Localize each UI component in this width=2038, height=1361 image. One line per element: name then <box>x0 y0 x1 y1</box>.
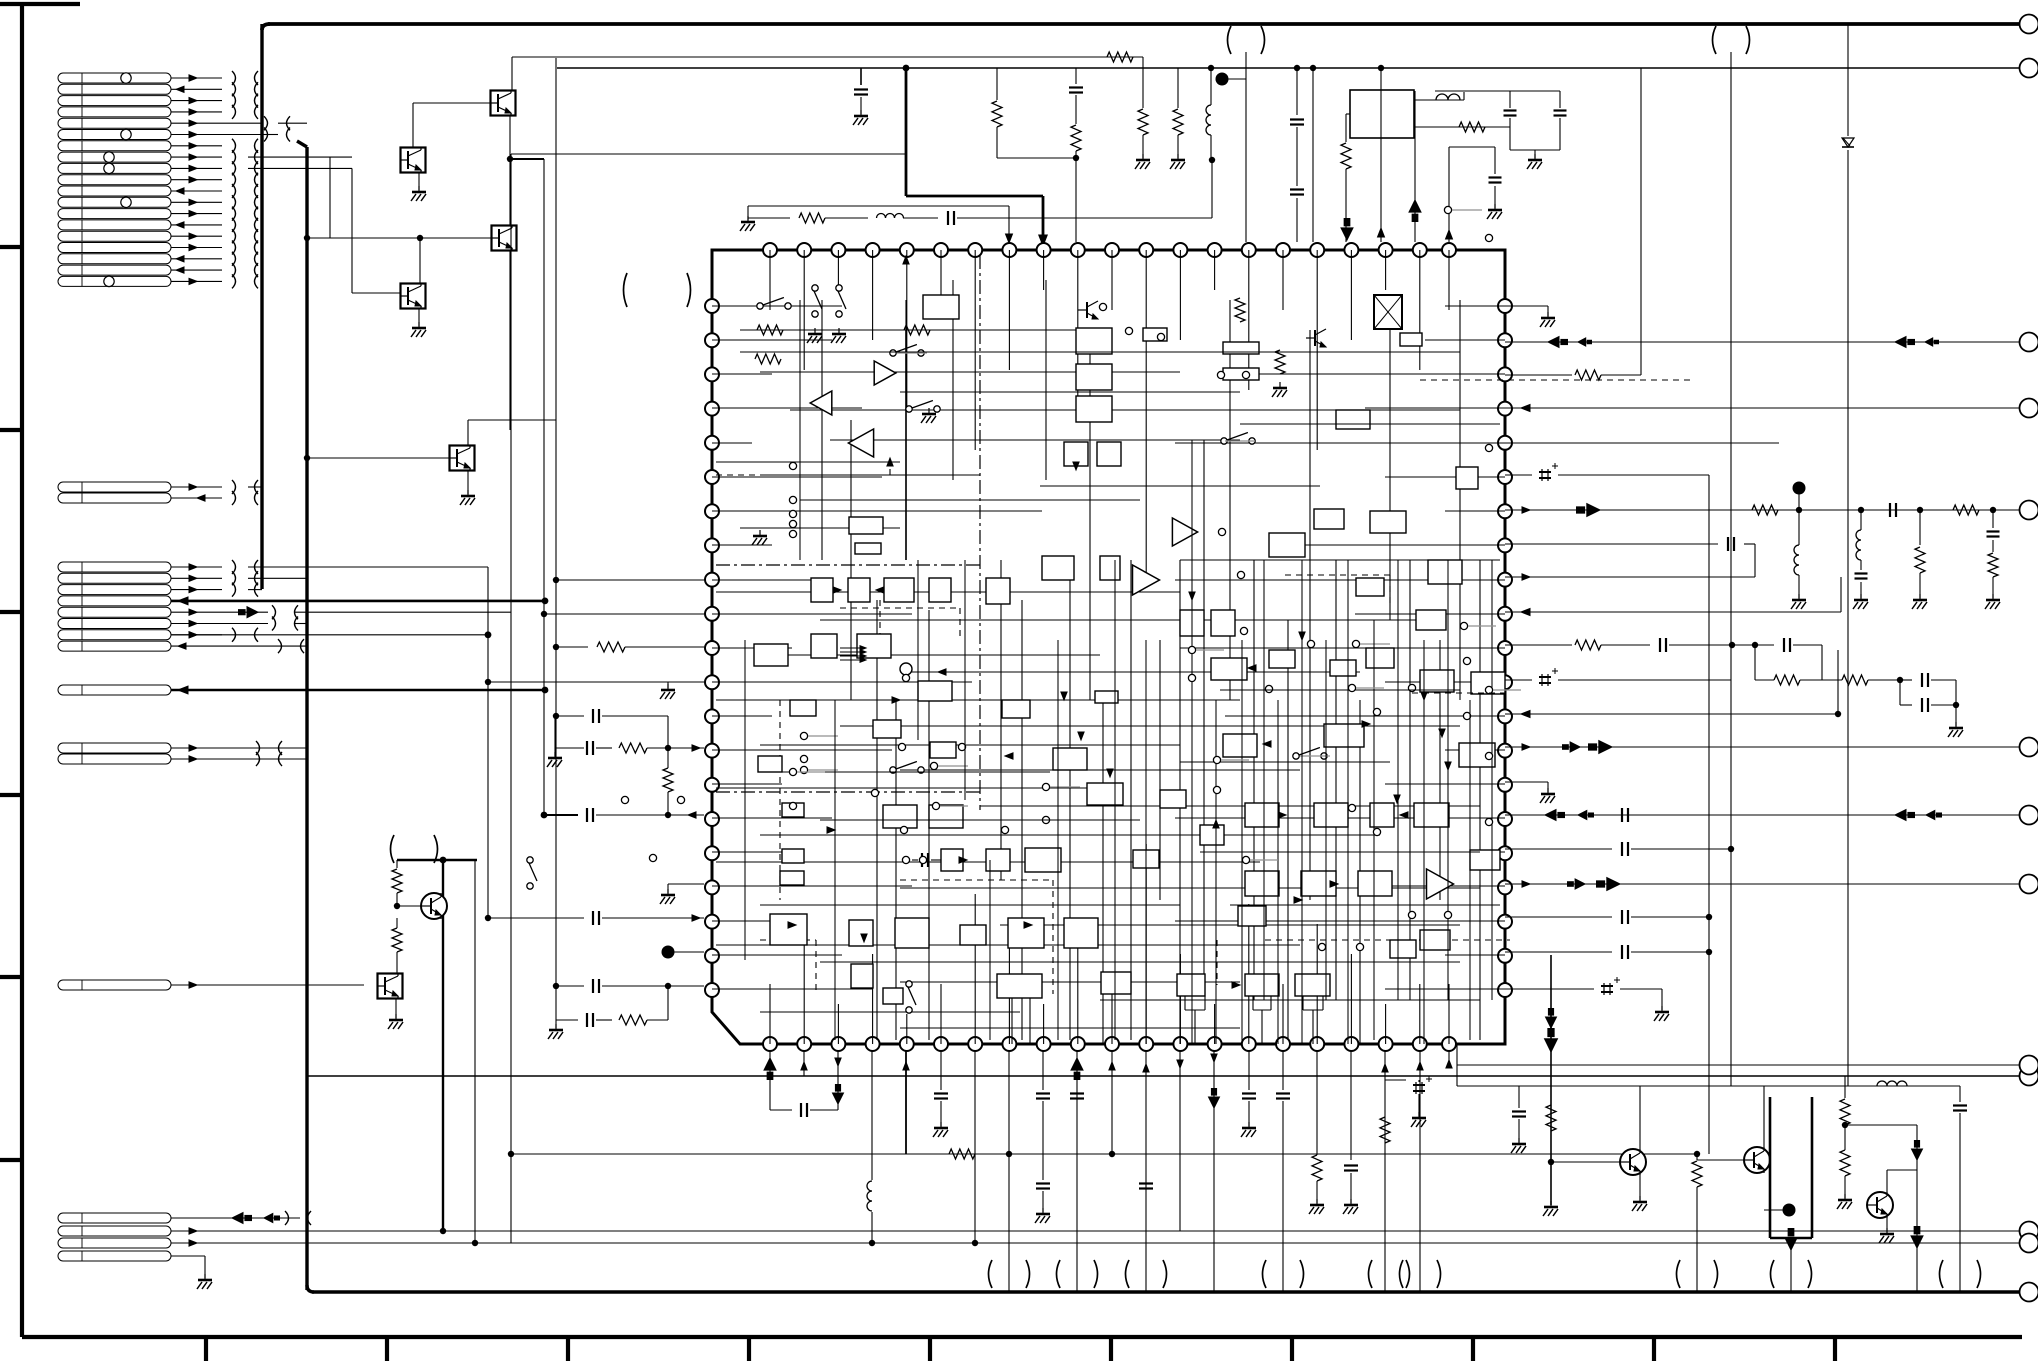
wire Q1 top to net V57 <box>511 57 513 90</box>
terminal right 1076 <box>2020 1067 2038 1086</box>
IC interior switches <box>757 303 763 309</box>
right row 475 cap-polarized <box>1505 474 1532 476</box>
block FB5 <box>1076 364 1112 390</box>
IC interior extra arrows <box>1189 592 1195 600</box>
IC interior gray link stubs <box>808 735 838 737</box>
block XB5 <box>1356 578 1384 596</box>
capacitor C40 column <box>1518 1086 1520 1108</box>
below IC rail y1154 <box>511 1153 1697 1155</box>
right pin row1 elbow ground <box>1505 305 1548 307</box>
wire Q8 collector <box>1639 1086 1641 1150</box>
capacitor C2 <box>1075 68 1077 84</box>
pin 1249 cap ground <box>1248 1051 1250 1090</box>
long vertical net LV3 <box>487 567 489 918</box>
block FB9 <box>1143 328 1167 341</box>
block FB3 <box>855 543 881 554</box>
block FB8 <box>1097 442 1121 466</box>
long vertical net LV2 <box>474 860 476 1243</box>
wire node down to Q4 top <box>419 238 421 283</box>
connector CN1 pill stack <box>58 73 171 83</box>
long vertical net LV4b upper <box>510 154 512 611</box>
right row 510 long wire to terminal <box>1505 509 2020 511</box>
wire CN7 row2 long video out <box>171 1230 2020 1232</box>
connector CN5 pill stack <box>58 743 171 753</box>
wire into left pin row 12 with ground stub <box>488 681 704 683</box>
block FB37 <box>941 849 963 871</box>
IC interior transistor T2 <box>1314 330 1316 346</box>
right row 544 capacitor <box>1505 543 1718 545</box>
long vertical net LV4 <box>510 611 512 1243</box>
IC interior amplifier A2 <box>810 391 832 415</box>
wire V57 elbow to V68 <box>1142 57 1144 68</box>
thick rail above Q6 <box>397 859 477 861</box>
block XB3 <box>1269 650 1295 668</box>
ground below Q5 <box>467 471 469 494</box>
wire R40 to Q8 base <box>1551 1161 1619 1163</box>
terminal right 747 <box>2020 738 2038 757</box>
LC to ground 1 <box>1858 507 1864 513</box>
top thick bus Vcc <box>262 24 270 30</box>
transistor box Q5 <box>450 446 475 471</box>
connector CN5 wires <box>171 747 307 749</box>
pin 770 bold up arrow <box>769 1051 771 1110</box>
block FB17 <box>1370 511 1406 533</box>
transistor Q9 <box>1744 1147 1770 1173</box>
block FB4 <box>1076 328 1112 354</box>
block XB8 <box>1133 850 1159 868</box>
terminal right 1246 <box>2020 1234 2038 1253</box>
block FB14 <box>1400 333 1422 346</box>
connector CN3 wires <box>171 566 222 568</box>
capacitor network rows 13-14 <box>586 741 588 755</box>
IC interior comparator block with cross <box>1374 295 1402 329</box>
wire into left pin row 13 with capacitor <box>556 715 584 717</box>
ground R40 <box>1550 1201 1552 1207</box>
resistor R41 column <box>1696 1154 1698 1160</box>
pin 1351 cap ground ladder <box>1350 1051 1352 1160</box>
block FB28 <box>811 634 837 658</box>
block FB65 <box>1366 648 1394 668</box>
block FB49 <box>883 988 903 1004</box>
long vertical net LV1 <box>442 860 444 1231</box>
block XB11 <box>790 700 816 716</box>
cap-polarized near pin 1385 <box>1385 1079 1406 1081</box>
block FB66 <box>1459 743 1495 767</box>
pin 1043 double cap ground <box>1042 1051 1044 1090</box>
capacitor C20 on row 510 <box>1889 503 1891 517</box>
block FB10 <box>1223 342 1259 354</box>
page border bottom ticks <box>204 1337 208 1361</box>
connector parens 1009 <box>989 1260 993 1288</box>
resistor R6 with bold arrow into pin 18 <box>1345 138 1347 142</box>
block XB18 <box>960 925 986 945</box>
block FB60 <box>1370 803 1394 827</box>
terminal right 1232 <box>2020 1222 2038 1241</box>
block FB29 <box>857 634 891 658</box>
block XB7 <box>1420 930 1450 950</box>
IC U1 bottom pins <box>763 1037 777 1051</box>
capacitor C6 column at pin 20 <box>1448 147 1450 242</box>
right row 917 capacitor <box>1505 916 1612 918</box>
block XB15 <box>873 720 901 738</box>
wire CN3 row6 <box>294 623 307 625</box>
block FB50 <box>997 974 1042 998</box>
IC U1 right pins <box>1498 299 1512 313</box>
bus wire W1 thick vertical <box>260 24 263 589</box>
connector parens 1077 <box>1057 1260 1061 1288</box>
IC U1 left pins <box>705 299 719 313</box>
net LV4 top horizontal <box>511 153 906 155</box>
connector parens 1385 <box>1369 1260 1373 1288</box>
pin 1385 long drop resistor <box>1384 1051 1386 1292</box>
block FB57 <box>1324 724 1364 747</box>
junction LV2 bottom <box>472 1240 478 1246</box>
transistor box Q4 <box>401 284 426 309</box>
block FB15 <box>1269 533 1305 557</box>
block XB14 <box>1470 850 1500 870</box>
terminal right 408 <box>2020 399 2038 418</box>
block FB25 <box>1042 556 1074 580</box>
inductor L2 top <box>1845 1085 1870 1087</box>
right row 989 cap-polarized <box>1505 988 1594 990</box>
block FB7 <box>1064 442 1088 466</box>
block FB33 <box>1087 783 1123 805</box>
wire CN4 thick line <box>171 689 545 692</box>
diode D1 column <box>1847 24 1849 136</box>
IC interior small arrows <box>903 256 909 264</box>
resistor R5 column <box>1177 68 1179 108</box>
pin 804 stub arrow <box>803 1051 805 1076</box>
pin 872 inductor drop <box>871 1051 873 1180</box>
terminal right 815 <box>2020 806 2038 825</box>
capacitor C4 <box>1509 91 1511 108</box>
IC U1 top pins <box>763 243 777 257</box>
pin 1146 drop to bus <box>1145 1051 1147 1292</box>
block FB18 <box>1428 560 1462 584</box>
connector CN1 pin indicator circles <box>121 73 131 83</box>
net V68 horizontal line <box>557 67 2020 69</box>
wire CN3 row3 to bus W1 <box>248 589 262 591</box>
wire Q1 collector down to node <box>509 116 511 159</box>
bold down arrows x1917 <box>1916 1125 1918 1292</box>
IC interior dashed control lines <box>716 474 890 476</box>
below IC rail y1086 right <box>1457 1085 1960 1087</box>
capacitor C3 column <box>1296 68 1298 115</box>
block FB64 <box>1358 871 1392 896</box>
ground CN7 <box>204 1274 206 1280</box>
block FB2 <box>849 517 883 534</box>
capacitor C41 column <box>1959 1086 1961 1102</box>
wire Q5 collector up <box>467 420 469 445</box>
thick capacitor line into pin row 15 <box>544 814 578 816</box>
block XB4 <box>1416 610 1446 630</box>
wire cluster right link <box>1845 1124 1917 1126</box>
black node dot Q9 <box>1783 1204 1796 1217</box>
wire Q3 collector vertical <box>509 159 511 225</box>
IC interior wire mesh verticals <box>821 300 823 560</box>
IC interior right pin stubs <box>1445 305 1505 307</box>
wire into left pin row 10 <box>544 613 704 615</box>
resistor hanging row 14-15 <box>663 768 673 792</box>
block XB12 <box>1238 906 1266 926</box>
terminal Vcc right <box>2020 15 2038 34</box>
long vertical net W3 <box>543 159 545 815</box>
transistor Q6 <box>421 893 447 919</box>
bus wire W2 bottom corner to bottom bus <box>307 1285 314 1292</box>
node dot on 510 net <box>1793 482 1806 495</box>
block FB31 <box>1095 691 1118 703</box>
net W5 with resistor coil capacitor <box>748 217 790 219</box>
resistor R20 on row 510 <box>1752 505 1778 515</box>
page border left ticks <box>0 245 22 249</box>
ground below Q2 <box>418 173 420 190</box>
wire CN7 row1 bold arrows <box>171 1217 300 1219</box>
connector CN1 row wires and arrows <box>171 77 222 79</box>
connector CN3 row5 bold arrow <box>247 607 258 618</box>
wire label to diode column <box>1730 52 1732 1086</box>
IC interior wire mesh horizontals <box>740 329 1100 331</box>
block FB30 <box>918 681 952 701</box>
transistor Q10 body <box>1867 1192 1893 1218</box>
wire node to W3 vertical <box>510 158 544 160</box>
resistor R2 divider <box>996 68 998 100</box>
block XB13 <box>1390 940 1416 958</box>
bold down arrow to bus x1765 <box>1785 1238 1797 1250</box>
wire Q10 emitter <box>1886 1217 1888 1232</box>
crystal network bar <box>1414 99 1464 101</box>
wire CN1 row5 to bus <box>278 122 307 124</box>
right row 849 capacitor to net <box>1505 848 1612 850</box>
IC interior switch grounds <box>814 328 816 334</box>
resistor R21 on row 510 right <box>1953 505 1979 515</box>
resistor R4 column <box>1142 68 1144 108</box>
block FB44 <box>849 920 873 946</box>
pin 1077 bold up arrow cap drop <box>1076 1051 1078 1292</box>
IC interior capacitor <box>902 856 909 863</box>
ground below Q4 <box>418 309 420 326</box>
wire CN3 row7 long <box>171 634 488 636</box>
right row 782 elbow ground <box>1505 781 1548 783</box>
wire Q10 collector to cap <box>1886 1170 1888 1193</box>
resistor R42 column <box>1844 1076 1846 1098</box>
IC interior extra verticals <box>744 640 746 960</box>
reference label parens Q6 <box>391 835 395 863</box>
cap bridge box <box>1754 645 1756 680</box>
transistor box Q3 <box>492 226 517 251</box>
wire W4 into pin 8 with ground <box>748 205 1009 207</box>
transistor box Q1 <box>491 91 516 116</box>
block FB56 <box>1223 734 1257 757</box>
wire from label down to pin 16 <box>1245 52 1247 242</box>
wire CN6 to transistor box Q7 <box>171 984 364 986</box>
block feet bottom row <box>1184 996 1186 1010</box>
block FB46 <box>1008 918 1044 948</box>
page border top-left stub <box>0 2 80 6</box>
block FB48 <box>851 964 873 988</box>
black node dot into pin row 18 <box>662 946 675 959</box>
IC interior amplifier A4 <box>1172 518 1197 546</box>
block XB17 <box>1002 700 1030 718</box>
IC interior resistors <box>757 325 783 335</box>
block FB45 <box>895 918 929 948</box>
wire CN3 row4 thick video line <box>171 600 545 603</box>
arrow into pin 10 <box>1039 235 1048 246</box>
block FB19 <box>1471 672 1505 694</box>
wire CN1 row6 to bus <box>262 134 278 136</box>
block FB52 <box>1245 974 1279 996</box>
wire CN3 row8 <box>171 645 307 647</box>
elbow ground at pin row 16 <box>668 883 704 885</box>
wire into left pin row 11 with resistor <box>556 646 588 648</box>
IC interior top pin stubs <box>769 250 771 310</box>
block FB38 <box>986 849 1010 871</box>
pin 1317 resistor ground ladder <box>1316 1051 1318 1155</box>
IC interior amplifier A3 <box>848 429 873 457</box>
net V57 thin top line <box>512 56 1143 58</box>
IC interior amplifier A5 <box>1133 565 1160 595</box>
connector CN6 pill <box>58 980 171 990</box>
IC interior node circle <box>900 663 912 675</box>
wire Q2 collector to Q1 base <box>412 103 414 147</box>
right row 952 capacitor <box>1505 951 1612 953</box>
pin 1112 drop <box>1111 1051 1113 1154</box>
IC interior dash-dot partition horizontal <box>716 564 980 566</box>
wire Q5 base <box>307 457 449 459</box>
block FB54 <box>1211 658 1247 680</box>
block FB53 <box>1295 974 1330 996</box>
wire Q8 emitter ground <box>1639 1174 1641 1200</box>
capacitor C5 <box>1559 91 1561 108</box>
transistor box Q7 <box>378 974 403 999</box>
wire CN1 row8 to transistor Q2 base <box>248 156 352 158</box>
block FB26 <box>1100 556 1120 580</box>
wire into pin 17 <box>1312 68 1314 242</box>
block XB1 <box>1180 610 1204 636</box>
IC U1 body outline <box>712 250 1505 1044</box>
resistor R3 <box>1075 95 1077 124</box>
resistor R1 on V57 <box>1107 52 1133 62</box>
reference label parens top right <box>1713 26 1717 54</box>
IC interior bottom pin stubs <box>769 984 771 1044</box>
block FB32 <box>1053 748 1087 770</box>
block FB51 <box>1177 974 1205 996</box>
small arrow at pin 18b <box>1380 68 1382 242</box>
block XB2 <box>1211 610 1235 636</box>
connector parens 1146 <box>1126 1260 1130 1288</box>
wire CN7 row3 long <box>171 1242 2020 1244</box>
cap ladder to ground <box>1900 679 1912 681</box>
block FB39 <box>1025 848 1061 872</box>
ground W4 <box>747 216 749 222</box>
block XB9 <box>1160 790 1186 808</box>
vertical drop x1457 <box>1456 1044 1458 1086</box>
RC to ground 3 <box>1990 507 1996 513</box>
oscillator block X1 <box>1350 90 1414 138</box>
block FB41 <box>782 849 804 863</box>
block FB20 <box>811 578 833 602</box>
block XB19 <box>1330 660 1356 676</box>
right row 714 wire with dot <box>1505 713 1838 715</box>
IC interior amplifier A1 <box>874 361 896 385</box>
block FB23 <box>929 578 951 602</box>
right side vertical drop from 989 <box>1550 955 1552 1205</box>
junction LV1 bottom <box>440 1228 446 1234</box>
pin 906 thick drop <box>905 1051 907 1154</box>
connector parens 1959 <box>1940 1260 1944 1288</box>
wire CN3 row1 long <box>248 566 488 568</box>
IC interior extra dashed <box>1216 940 1218 985</box>
ground crystal network <box>1534 150 1536 158</box>
transistor box Q2 <box>401 148 426 173</box>
resistor R40 <box>1546 1105 1556 1131</box>
IC interior thick signal wire <box>905 330 907 560</box>
pin 1180 drop <box>1179 1051 1181 1231</box>
block FB36 <box>1200 825 1224 845</box>
block FB24 <box>986 578 1010 604</box>
inductor to ground on row 510 <box>1794 545 1799 575</box>
pin 975 long drop <box>974 1051 976 1243</box>
right row 645 RC chain <box>1505 644 1572 646</box>
connector CN7 pill stack <box>58 1213 171 1223</box>
block FB1 <box>923 295 959 319</box>
wire into left pin row 9 <box>556 579 704 581</box>
IC interior extra gray stubs <box>1196 649 1224 651</box>
wire CN3 row2 <box>248 577 307 579</box>
wire CN7 row4 to ground <box>171 1255 205 1257</box>
connector parens 1415b <box>1400 1260 1404 1288</box>
wire Q9 collector up <box>1763 1086 1765 1148</box>
connector parens 1765 <box>1771 1260 1775 1288</box>
block XB6 <box>1101 972 1131 994</box>
block FB58 <box>1245 803 1279 827</box>
wire R3 node to pin 11 <box>1075 158 1077 242</box>
block FB61 <box>1414 803 1449 827</box>
IC interior left pin stubs <box>712 305 842 307</box>
reference label parens top middle <box>1228 26 1232 54</box>
pin 1214 bold down arrow <box>1213 1051 1215 1292</box>
block FB21 <box>848 578 870 602</box>
block XB10 <box>758 756 782 772</box>
right row 815 long wire caps arrows <box>1505 814 2020 816</box>
right row 342 long wire with bold arrows <box>1505 341 2020 343</box>
twin-T network into pin row 19 <box>556 985 584 987</box>
right row 680 cap-polarized into pin <box>1505 679 1532 681</box>
thick wire from V68 node to pin arrows <box>903 65 910 72</box>
block FB11 <box>1223 368 1259 380</box>
block FB6 <box>1076 396 1112 422</box>
block FB34 <box>883 805 917 828</box>
wire Q7 collector to R11 <box>396 973 398 975</box>
terminal right 342 <box>2020 333 2038 352</box>
right row 375 resistor <box>1505 374 1572 376</box>
right row 443 wire <box>1505 442 1779 444</box>
block FB35 <box>929 805 963 828</box>
terminal bottom bus right <box>2020 1283 2038 1302</box>
pin 1009 long drop to bus <box>1008 1051 1010 1292</box>
pin 1420 drop <box>1419 1051 1421 1076</box>
block FB47 <box>1064 918 1098 948</box>
bold up arrow at pin 19 <box>1414 91 1416 242</box>
block FB59 <box>1314 803 1348 827</box>
wire Q6 base node <box>397 905 421 907</box>
connector parens 1283 <box>1263 1260 1267 1288</box>
ground below Q7 <box>395 999 397 1018</box>
connector CN2 wires <box>171 486 222 488</box>
resistor R11 below Q6 <box>392 928 402 952</box>
block FB13 <box>1456 467 1478 489</box>
inductor L1 column <box>1210 68 1212 105</box>
resistor R30 on rail 1154 <box>949 1149 975 1159</box>
